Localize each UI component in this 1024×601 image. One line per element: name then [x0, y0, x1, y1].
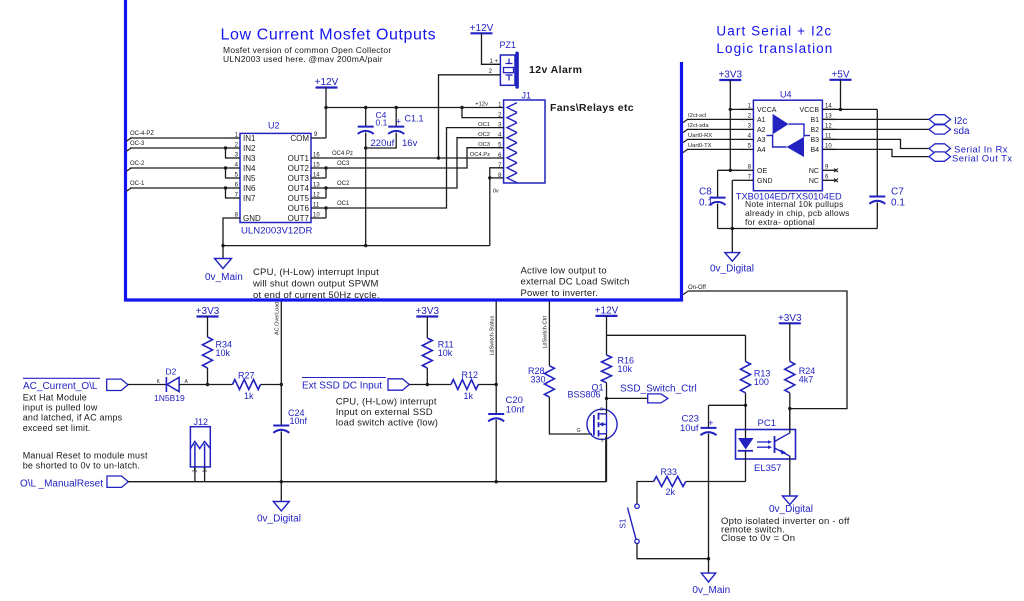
- power +5V above U4: [830, 79, 852, 81]
- wire +12V junction to R16 and R13 rail: [606, 316, 608, 355]
- switch S1: [635, 504, 639, 508]
- wire to SSD_Switch_Ctrl flag: [607, 397, 648, 399]
- svg-text:330: 330: [530, 375, 545, 385]
- capacitor C24 10nf: [280, 385, 282, 426]
- wire LdSwitch-Status riser: [495, 302, 497, 415]
- wire LdSwitch-Ctrl riser: [548, 302, 550, 366]
- wire Q1 source down: [606, 434, 608, 482]
- capacitor C20 10nf: [488, 413, 504, 415]
- svg-text:IN4: IN4: [243, 164, 256, 173]
- wires I2ct/Uart from sheet border to U4: [683, 119, 688, 122]
- wire U2 GND to 0v rail: [223, 218, 226, 246]
- svg-text:A4: A4: [757, 147, 766, 154]
- svg-text:B2: B2: [810, 127, 819, 134]
- wire J1 pin2 branch: [462, 108, 504, 118]
- svg-text:ot end of current 50Hz cycle.: ot end of current 50Hz cycle.: [253, 290, 380, 301]
- wire +12V to PZ1 pin1: [482, 33, 501, 64]
- svg-text:LdSwitch-Ctrl: LdSwitch-Ctrl: [543, 316, 549, 349]
- resistor R24 4k7: [789, 323, 791, 361]
- wire 0v to J1 pins7-8: [490, 168, 504, 246]
- resistor R13 100: [745, 335, 747, 361]
- svg-text:100: 100: [754, 377, 769, 387]
- svg-text:input is pulled low: input is pulled low: [23, 403, 98, 413]
- svg-text:will shut down output SPWM: will shut down output SPWM: [252, 279, 379, 290]
- svg-text:IN1: IN1: [243, 134, 256, 143]
- svg-text:sda: sda: [954, 126, 971, 137]
- resistor R12 1k: [451, 380, 478, 390]
- svg-text:16: 16: [313, 153, 320, 159]
- wire PC1 cathode to R33: [745, 459, 747, 482]
- svg-text:+12V: +12V: [315, 77, 339, 88]
- svg-text:OUT4: OUT4: [288, 184, 310, 193]
- wire OC3 OUT2 to J1 pin5: [326, 148, 504, 168]
- wire OUT5 tie to OUT4: [325, 188, 327, 198]
- U4 pin stubs: [740, 108, 753, 110]
- svg-text:0v: 0v: [493, 189, 499, 195]
- wire B1 to I2c flag: [822, 118, 929, 120]
- svg-text:C8: C8: [699, 187, 712, 198]
- wire +12V to COM pin9: [325, 88, 327, 139]
- wire OUT3 tie to OUT2: [325, 168, 327, 178]
- flag AC_Current_O\L input: [23, 377, 100, 379]
- svg-text:14: 14: [825, 103, 832, 109]
- svg-text:0v_Digital: 0v_Digital: [769, 504, 813, 515]
- wire R24 to PC1 collector node: [789, 393, 791, 430]
- svg-text:CPU, (H-Low) interrupt Input: CPU, (H-Low) interrupt Input: [253, 267, 379, 278]
- svg-text:+12v: +12v: [475, 102, 488, 108]
- svg-text:0v_Digital: 0v_Digital: [257, 513, 301, 524]
- svg-text:IN7: IN7: [243, 194, 256, 203]
- svg-text:0.1: 0.1: [376, 118, 388, 128]
- svg-text:AC.OverLoad: AC.OverLoad: [275, 302, 281, 335]
- svg-text:load switch active (low): load switch active (low): [336, 418, 438, 429]
- wire B2 to sda flag: [822, 128, 929, 130]
- power +12V above U2: [316, 86, 338, 88]
- svg-text:+12V: +12V: [595, 305, 619, 316]
- wire OUT7 tie to OUT6: [325, 208, 327, 218]
- capacitor C23 10uf: [708, 405, 710, 428]
- svg-text:Active low output to: Active low output to: [521, 266, 607, 277]
- wire D2 to R27: [179, 384, 232, 386]
- svg-text:VCCA: VCCA: [757, 107, 777, 114]
- flag I2c: [929, 115, 951, 124]
- svg-text:12: 12: [313, 193, 320, 199]
- wire On-Off from sheet to R24/PC1: [683, 292, 688, 295]
- svg-text:A1: A1: [757, 117, 766, 124]
- svg-text:0v_Digital: 0v_Digital: [710, 263, 754, 274]
- svg-text:Input on external SSD: Input on external SSD: [336, 407, 433, 418]
- svg-text:+3V3: +3V3: [415, 306, 439, 317]
- capacitor C7 0.1: [876, 109, 878, 196]
- svg-text:U2: U2: [268, 121, 280, 131]
- capacitor C8 0.1: [717, 170, 719, 197]
- resistor R16 10k: [602, 355, 612, 383]
- svg-text:+3V3: +3V3: [718, 70, 742, 81]
- U4 buffer triangles: [773, 114, 789, 134]
- svg-text:15: 15: [313, 163, 320, 169]
- wire OC4 Pz OUT1 to J1 pin6: [326, 157, 504, 159]
- diode D2 1N5B19: [165, 377, 167, 392]
- svg-text:IN6: IN6: [243, 184, 256, 193]
- svg-text:Ext SSD DC Input: Ext SSD DC Input: [302, 381, 382, 392]
- svg-text:12: 12: [825, 123, 832, 129]
- svg-text:for extra- optional: for extra- optional: [745, 217, 815, 227]
- svg-text:ULN2003V12DR: ULN2003V12DR: [241, 226, 313, 237]
- svg-text:A2: A2: [757, 127, 766, 134]
- wire B4 to Serial Out Tx: [822, 149, 929, 156]
- wire to R12: [409, 384, 451, 386]
- svg-text:S: S: [600, 438, 603, 443]
- svg-text:O\L _ManualReset: O\L _ManualReset: [20, 478, 103, 489]
- svg-text:B3: B3: [810, 137, 819, 144]
- svg-text:B1: B1: [810, 117, 819, 124]
- svg-text:Manual Reset to module must: Manual Reset to module must: [23, 450, 148, 460]
- svg-text:1k: 1k: [464, 391, 474, 401]
- svg-text:GND: GND: [757, 178, 773, 185]
- svg-text:C7: C7: [891, 187, 904, 198]
- svg-text:OUT2: OUT2: [288, 164, 310, 173]
- svg-text:Fans\Relays etc: Fans\Relays etc: [550, 102, 634, 114]
- svg-text:R33: R33: [661, 467, 678, 477]
- svg-text:D2: D2: [166, 367, 177, 377]
- svg-text:OUT5: OUT5: [288, 194, 310, 203]
- power +3V3 above R11: [416, 315, 438, 317]
- ground 0v_Main under U2: [222, 246, 224, 259]
- svg-text:IN5: IN5: [243, 174, 256, 183]
- U2 right pin stubs COM OUT1-OUT7: [311, 137, 326, 139]
- svg-text:Close to 0v = On: Close to 0v = On: [721, 533, 795, 544]
- svg-text:+: +: [396, 116, 402, 127]
- svg-text:10: 10: [825, 143, 832, 149]
- svg-text:11: 11: [313, 203, 320, 209]
- resistor R27 1k: [233, 380, 261, 390]
- wire C8-C7 bottom rail: [718, 228, 878, 230]
- svg-text:Ext Hat Module: Ext Hat Module: [23, 392, 87, 402]
- wire PZ1 pin2 to OC4.Pz net: [439, 75, 501, 158]
- svg-text:ULN2003 used here. @mav 200mA/: ULN2003 used here. @mav 200mA/pair: [223, 54, 383, 64]
- U2 left pin stubs IN1-IN7 GND: [226, 137, 240, 139]
- svg-text:4k7: 4k7: [799, 375, 814, 385]
- svg-text:2k: 2k: [666, 487, 676, 497]
- power +3V3 above R24: [779, 322, 801, 324]
- svg-text:PZ1: PZ1: [500, 40, 517, 50]
- IC U2 ULN2003V12DR body: [240, 133, 311, 222]
- flag Ext SSD DC Input: [302, 377, 386, 379]
- wire R33 to S1: [637, 482, 654, 505]
- svg-text:1 +: 1 +: [489, 59, 498, 65]
- svg-text:B4: B4: [810, 147, 819, 154]
- svg-text:OE: OE: [757, 168, 767, 175]
- svg-text:Uart Serial + I2c: Uart Serial + I2c: [716, 23, 832, 38]
- svg-text:Low Current Mosfet Outputs: Low Current Mosfet Outputs: [221, 26, 437, 43]
- svg-text:0.1: 0.1: [699, 198, 713, 209]
- svg-text:OUT6: OUT6: [288, 204, 310, 213]
- power +12V above R16: [596, 315, 618, 317]
- svg-text:Power to inverter.: Power to inverter.: [521, 288, 599, 299]
- svg-text:+12V: +12V: [470, 23, 494, 34]
- wire R27 to AC.OverLoad riser: [261, 384, 282, 386]
- wire J12 pins to rail: [194, 467, 196, 482]
- svg-text:OC-1: OC-1: [130, 181, 145, 187]
- resistor R11 10k: [426, 317, 428, 339]
- wire AC_Current to D2: [128, 384, 166, 386]
- svg-text:IN3: IN3: [243, 154, 256, 163]
- power +3V3 above R34: [197, 315, 219, 317]
- svg-text:U4: U4: [780, 90, 792, 100]
- power +3V3 above U4: [719, 79, 741, 81]
- wire PC1 collector: [789, 409, 791, 433]
- svg-text:PC1: PC1: [758, 418, 776, 429]
- svg-text:+3V3: +3V3: [778, 313, 802, 324]
- svg-text:16v: 16v: [402, 138, 418, 149]
- wire R13 to PC1 anode node: [745, 393, 747, 430]
- wire R12 to LdSwitch-Status riser: [478, 384, 496, 386]
- svg-text:Uart0-TX: Uart0-TX: [688, 143, 712, 149]
- svg-text:10k: 10k: [438, 348, 453, 358]
- svg-text:1: 1: [202, 470, 208, 473]
- wire +3V3 to VCCA and OE: [729, 80, 731, 170]
- sheet border box: [126, 0, 682, 300]
- U4 NC x markers: [834, 169, 838, 173]
- svg-text:NC: NC: [809, 168, 819, 175]
- resistor R33 2k: [654, 477, 686, 487]
- flag sda: [929, 125, 951, 134]
- svg-text:OUT3: OUT3: [288, 174, 310, 183]
- resistor R28 330: [544, 366, 554, 397]
- svg-text:LdSwitch-Status: LdSwitch-Status: [489, 316, 495, 356]
- svg-text:R27: R27: [238, 371, 255, 381]
- svg-text:10nf: 10nf: [506, 405, 525, 416]
- svg-text:C1.1: C1.1: [405, 114, 424, 124]
- svg-text:OC-4-PZ: OC-4-PZ: [130, 131, 154, 137]
- ground 0v_Digital bottom: [280, 482, 282, 502]
- svg-text:+3V3: +3V3: [196, 306, 220, 317]
- svg-text:13: 13: [313, 183, 320, 189]
- svg-text:Uart0-RX: Uart0-RX: [688, 133, 712, 139]
- wire AC.OverLoad riser to sheet: [280, 302, 282, 385]
- svg-text:VCCB: VCCB: [800, 107, 820, 114]
- flag Serial In Rx: [929, 144, 951, 153]
- svg-text:external DC Load Switch: external DC Load Switch: [521, 277, 630, 288]
- svg-text:COM: COM: [290, 134, 309, 143]
- svg-text:S1: S1: [619, 518, 628, 528]
- svg-text:14: 14: [313, 173, 320, 179]
- svg-text:OC1: OC1: [337, 201, 350, 207]
- wire OC-2 to IN4 IN5: [127, 168, 132, 171]
- svg-text:12v Alarm: 12v Alarm: [529, 64, 582, 76]
- svg-text:OUT1: OUT1: [288, 154, 310, 163]
- svg-text:On-Off: On-Off: [688, 285, 706, 291]
- wire 0v_Main rail: [223, 245, 490, 247]
- svg-text:G: G: [577, 428, 581, 434]
- svg-text:OC4.Pz: OC4.Pz: [470, 152, 490, 158]
- wire OE to C8: [718, 169, 740, 171]
- svg-text:0v_Main: 0v_Main: [692, 585, 730, 596]
- resistor R34 10k: [207, 317, 209, 338]
- capacitor C4 0.1 220uf: [365, 108, 367, 127]
- svg-text:10uf: 10uf: [680, 423, 699, 434]
- svg-text:be shorted to 0v to un-latch.: be shorted to 0v to un-latch.: [23, 461, 140, 471]
- svg-text:BSS806: BSS806: [568, 390, 601, 400]
- svg-text:GND: GND: [243, 214, 261, 223]
- svg-text:IN2: IN2: [243, 144, 256, 153]
- svg-text:0.1: 0.1: [891, 198, 905, 209]
- wire OC1 OUT6 to J1 pin3: [326, 128, 504, 208]
- ground 0v_Main bottom: [708, 559, 710, 573]
- ground 0v_Digital under PC1: [782, 496, 797, 505]
- svg-text:Serial Out Tx: Serial Out Tx: [952, 153, 1012, 164]
- svg-text:1N5B19: 1N5B19: [154, 393, 185, 403]
- svg-text:0v_Main: 0v_Main: [205, 272, 243, 283]
- svg-text:OC2: OC2: [337, 181, 350, 187]
- wire +5V to VCCB: [840, 80, 842, 110]
- svg-text:+5V: +5V: [831, 69, 849, 80]
- svg-text:OC4 Pz: OC4 Pz: [332, 151, 353, 157]
- svg-text:AC_Current_O\L: AC_Current_O\L: [23, 381, 98, 392]
- wire manual reset rail to Q1 source: [128, 437, 606, 482]
- wire +12v rail to J1 pin1: [326, 107, 504, 109]
- svg-text:10k: 10k: [618, 364, 633, 374]
- svg-text:I2ct-scl: I2ct-scl: [688, 113, 706, 119]
- svg-text:and latched, if AC amps: and latched, if AC amps: [23, 413, 123, 423]
- svg-text:R12: R12: [462, 370, 479, 380]
- svg-text:EL357: EL357: [754, 463, 781, 474]
- svg-text:A3: A3: [757, 137, 766, 144]
- wire OC2 OUT4 to J1 pin4: [326, 138, 504, 188]
- wire R16 to Q1 drain: [606, 383, 608, 399]
- ground 0v_Digital under U4: [725, 253, 740, 262]
- svg-text:10k: 10k: [216, 348, 231, 358]
- svg-text:OC-3: OC-3: [130, 141, 145, 147]
- svg-text:OC-2: OC-2: [130, 161, 145, 167]
- wire U4 GND down to ground: [732, 179, 740, 181]
- svg-text:10nf: 10nf: [290, 416, 308, 426]
- svg-text:J1: J1: [522, 91, 532, 101]
- wire C23 to node: [709, 404, 746, 406]
- wire S1 to 0v_Main rail: [637, 544, 709, 559]
- svg-text:10: 10: [313, 213, 320, 219]
- flag Serial Out Tx: [929, 152, 951, 161]
- svg-text:NC: NC: [809, 178, 819, 185]
- power +12V above PZ1: [471, 32, 493, 34]
- svg-text:+: +: [708, 418, 714, 429]
- svg-text:I2ct-sda: I2ct-sda: [688, 123, 709, 129]
- svg-text:J12: J12: [194, 417, 209, 427]
- svg-text:SSD_Switch_Ctrl: SSD_Switch_Ctrl: [620, 384, 697, 395]
- wire OC-3 to IN2 IN3: [127, 148, 132, 151]
- svg-text:1k: 1k: [244, 391, 254, 401]
- wire B3 to Serial In Rx: [822, 139, 929, 148]
- svg-text:Logic translation: Logic translation: [716, 41, 833, 56]
- wire OC-4-PZ to IN1: [127, 138, 132, 141]
- svg-text:13: 13: [825, 113, 832, 119]
- wire PC1 emitter to ground: [789, 456, 791, 496]
- svg-text:11: 11: [825, 133, 832, 139]
- svg-text:exceed set limit.: exceed set limit.: [23, 423, 91, 433]
- wire OC-1 to IN6 IN7: [127, 188, 132, 191]
- svg-text:OUT7: OUT7: [288, 214, 310, 223]
- capacitor C1.1 16v: [395, 108, 397, 127]
- svg-text:OC3: OC3: [337, 161, 350, 167]
- wire R28 to Q1 gate: [549, 397, 592, 434]
